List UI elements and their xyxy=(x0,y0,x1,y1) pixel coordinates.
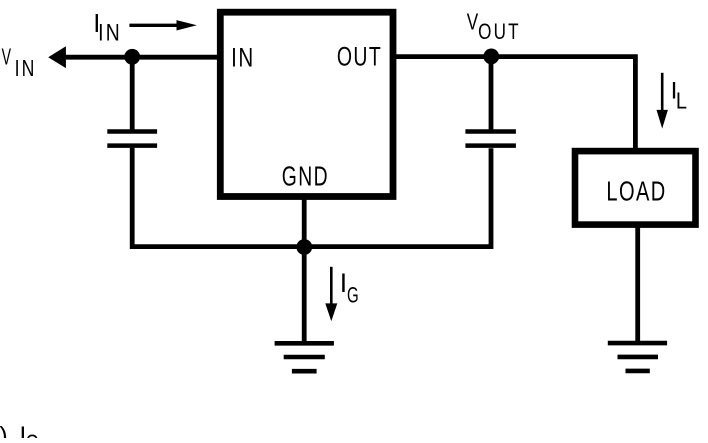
junction dot: ground node xyxy=(296,239,312,255)
svg-text:G: G xyxy=(26,431,39,438)
label I_IN xyxy=(93,10,122,46)
wire: input cap bottom lead + ground rail + output cap bottom lead xyxy=(132,148,491,247)
arrow I_IN (points right) xyxy=(129,20,196,30)
caption fragment (cut off at bottom edge): a) I_G xyxy=(0,422,39,443)
wire: output cap top lead xyxy=(489,57,494,130)
wire: load to ground xyxy=(635,225,640,342)
wire: input cap top lead xyxy=(130,57,135,130)
arrowhead V_IN (points left) xyxy=(48,46,66,68)
capacitor C_IN plates xyxy=(107,132,157,146)
label I_G xyxy=(340,268,359,308)
capacitor C_OUT plates xyxy=(465,132,516,146)
svg-text:IN: IN xyxy=(231,43,255,73)
junction dot: input node xyxy=(124,49,140,65)
junction dot: output node xyxy=(483,49,499,65)
svg-text:OUT: OUT xyxy=(478,20,521,45)
svg-text:GND: GND xyxy=(282,161,329,192)
label V_OUT xyxy=(467,9,521,45)
label I_L xyxy=(671,77,687,113)
wire: output horizontal wire + drop to load xyxy=(396,57,636,149)
wire: input node horizontal wire xyxy=(66,55,217,60)
svg-text:IN: IN xyxy=(98,18,122,46)
ground symbol (regulator side) xyxy=(275,343,334,371)
LOAD box xyxy=(575,151,696,225)
arrow I_L (points down) xyxy=(657,73,668,129)
svg-text:I: I xyxy=(340,268,347,298)
ground symbol (load side) xyxy=(608,343,667,371)
regulator box U1 xyxy=(220,12,393,196)
wire: GND pin to ground xyxy=(302,196,307,342)
svg-text:LOAD: LOAD xyxy=(606,176,666,207)
label V_IN xyxy=(2,44,37,82)
svg-text:OUT: OUT xyxy=(337,42,382,72)
svg-text:V: V xyxy=(467,9,479,35)
arrow I_G (points down) xyxy=(325,267,337,321)
svg-text:L: L xyxy=(676,87,687,114)
svg-text:IN: IN xyxy=(15,56,37,82)
svg-text:a): a) xyxy=(0,422,8,438)
svg-text:G: G xyxy=(347,283,359,308)
svg-text:V: V xyxy=(2,44,11,71)
